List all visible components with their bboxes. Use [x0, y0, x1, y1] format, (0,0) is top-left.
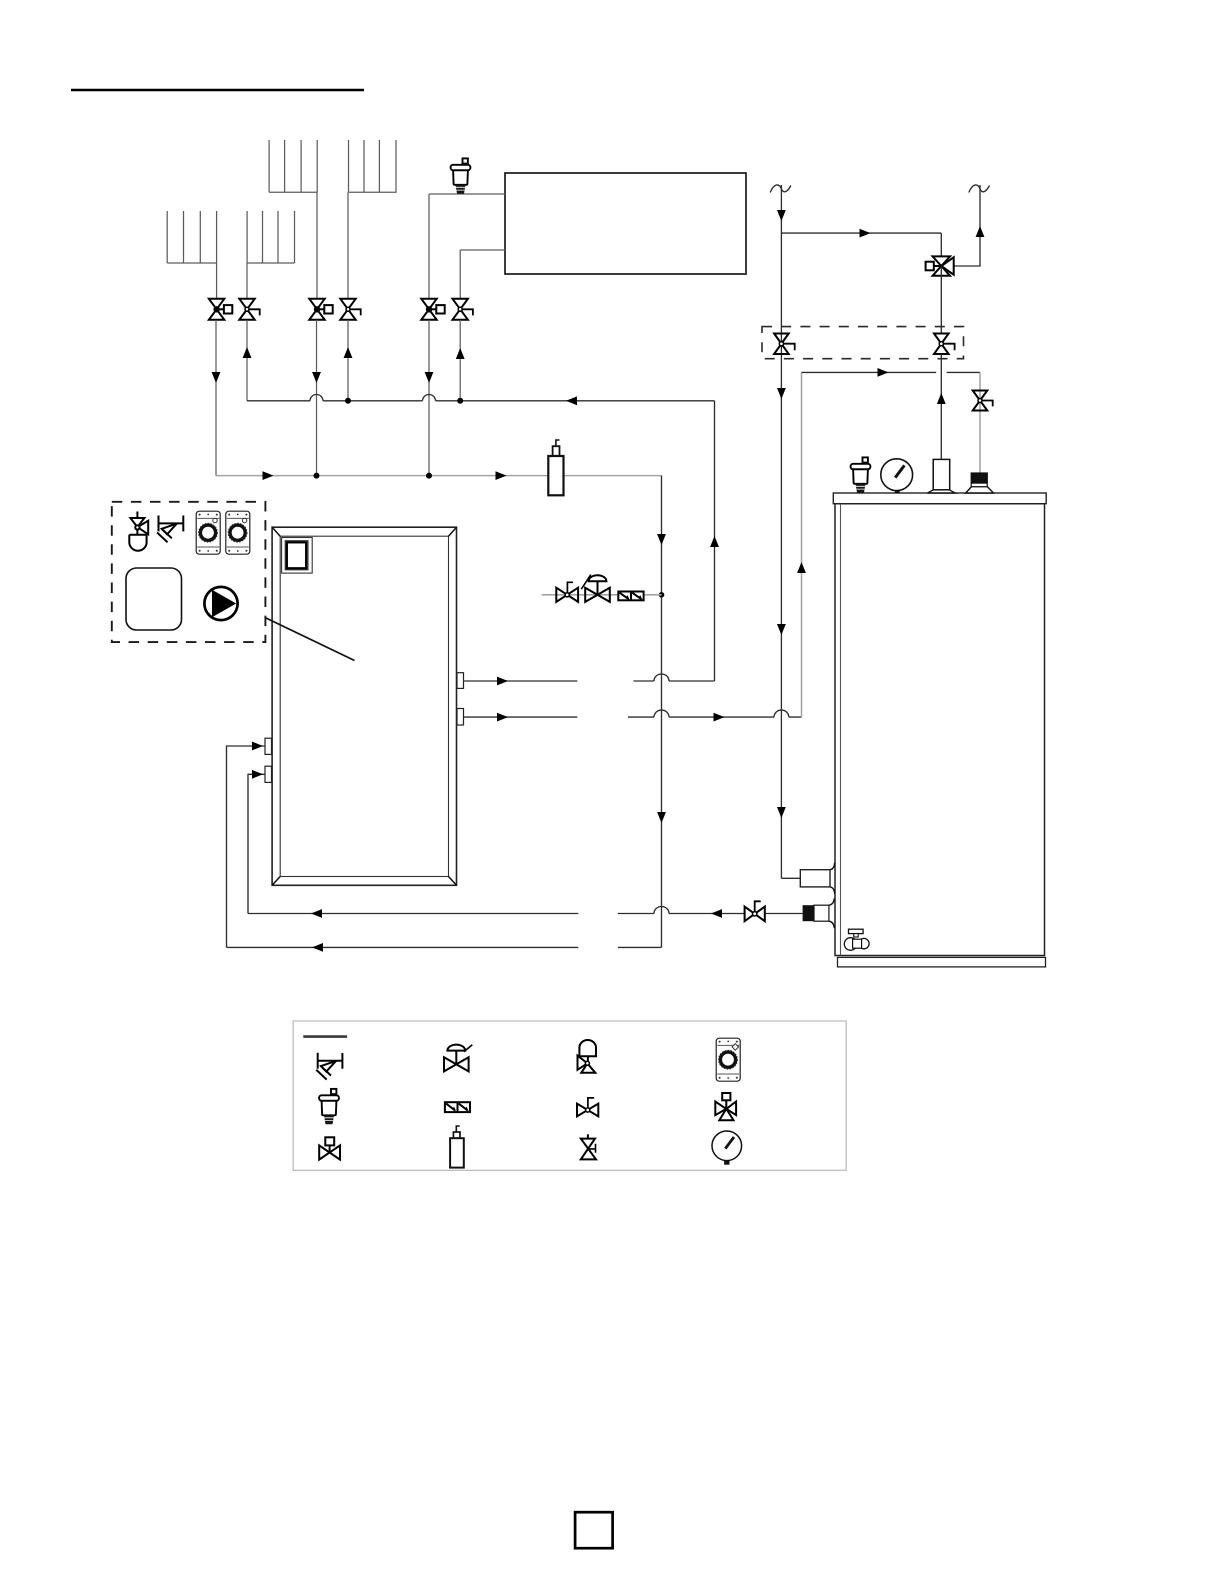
heating supply main	[247, 400, 715, 402]
tank top air vent	[851, 457, 871, 492]
radiator 1 right comb	[247, 211, 294, 263]
boiler heating supply line	[464, 674, 715, 681]
arrow left heating return	[312, 943, 323, 952]
dashed isolation-valve box	[762, 327, 964, 359]
wire radiator1 supply drop	[246, 263, 248, 299]
wire fancoil top connection	[429, 193, 505, 195]
hot water break squiggle	[969, 185, 990, 193]
legend gate valve with cap	[319, 1137, 340, 1159]
dashed internal-components box	[112, 502, 266, 642]
cold water break squiggle	[770, 185, 791, 193]
arrow up radiator1 supply	[243, 347, 252, 358]
tank lower side flange	[829, 898, 835, 928]
hand valve fan coil	[453, 299, 473, 320]
radiator hand valve radiator 1	[239, 299, 259, 320]
boiler DHW supply line	[464, 710, 802, 717]
boiler left port upper stub	[265, 738, 272, 754]
boiler left port lower stub	[265, 766, 272, 782]
legend double check valve	[445, 1102, 470, 1112]
hand valve on tank coil inlet	[973, 391, 993, 411]
arrow into boiler upper-left port	[252, 742, 263, 751]
tank pressure gauge	[881, 459, 913, 493]
heating return main	[216, 475, 662, 477]
internal circulator pump symbol	[204, 587, 237, 620]
arrow down radiator2 return	[312, 372, 321, 383]
thermostatic mixing valve	[926, 256, 954, 275]
tank upper side flange	[830, 863, 835, 894]
legend pressure gauge	[712, 1131, 742, 1165]
legend three-way valve	[715, 1093, 736, 1120]
arrow down cold water top	[777, 210, 786, 221]
wire radiator2 supply drop	[347, 192, 349, 298]
wire fancoil return drop	[428, 194, 430, 299]
arrow down cold water lower	[777, 807, 786, 818]
cold water branch to mixing valve	[781, 232, 941, 234]
tank lower side port black fitting	[803, 905, 814, 921]
boiler inner panel	[280, 536, 448, 876]
legend pressure reducing valve	[444, 1045, 472, 1072]
tank drain cock	[844, 929, 869, 950]
tank return line to boiler	[248, 907, 803, 914]
legend automatic air vent	[319, 1089, 339, 1124]
tank hot water outlet fitting (black cap)	[966, 472, 994, 493]
arrow left tank return left	[311, 909, 322, 918]
lockshield valve radiator 2	[309, 299, 332, 320]
arrow left on supply main	[566, 396, 577, 405]
arrow down cold water mid1	[777, 388, 786, 399]
internal air vent with cup	[129, 512, 148, 551]
tank coil feed pipe	[940, 354, 942, 459]
internal expansion vessel (rounded square)	[126, 568, 182, 630]
heating return bottom line	[227, 946, 662, 948]
arrow right on heating supply	[497, 677, 508, 686]
legend box	[293, 1021, 846, 1170]
leader line from dashed box to boiler	[266, 618, 355, 661]
boiler outer casing	[272, 527, 456, 885]
legend ball valve	[577, 1098, 598, 1117]
wire radiator2 return to main (hop over supply main)	[316, 320, 318, 476]
filling loop line	[542, 594, 662, 596]
wire radiator2 supply to main	[347, 320, 349, 401]
wire fancoil supply to main	[459, 320, 461, 401]
fan coil unit box	[505, 173, 746, 274]
lockshield valve fan coil	[421, 299, 444, 320]
arrow into boiler lower-left port	[252, 770, 263, 779]
arrow right on cold branch	[860, 229, 871, 238]
internal safety valve	[157, 516, 183, 543]
legend safety valve	[316, 1053, 342, 1080]
arrow up on DHW riser	[797, 562, 806, 573]
radiator return drop pipe	[661, 476, 663, 948]
boiler bevel corners	[272, 527, 456, 885]
cold water into tank lower connection	[781, 877, 800, 879]
boiler control panel	[282, 538, 313, 574]
wire radiator1 return drop	[216, 263, 218, 299]
arrow right on DHW supply at boiler	[497, 713, 508, 722]
heating return riser to boiler upper-left port	[227, 746, 266, 947]
radiator 1 left comb	[167, 211, 217, 263]
lockshield valve radiator 1	[209, 299, 232, 320]
arrow down radiator1 return	[212, 372, 221, 383]
legend pipe line sample	[303, 1035, 347, 1038]
tank base band	[838, 957, 1046, 967]
radiator hand valve radiator 2	[340, 299, 360, 320]
boiler right port upper stub	[457, 673, 464, 689]
arrow up on riser	[710, 536, 719, 547]
arrow right on return main mid	[496, 471, 507, 480]
cold water isolating valve	[774, 334, 795, 355]
page number box	[575, 1512, 613, 1548]
tank upper side port stub	[800, 870, 830, 887]
arrow right on DHW supply mid	[714, 713, 725, 722]
tank return ball valve	[745, 901, 765, 921]
mixing valve to isolating valve pipe	[940, 266, 942, 334]
wire fancoil supply drop	[459, 250, 461, 299]
arrow up tank coil feed	[937, 393, 946, 404]
wire fancoil return to return main (hop over supply main)	[428, 320, 430, 476]
node fancoil supply junction	[457, 398, 463, 404]
tank inner left line	[840, 504, 842, 956]
air vent on fancoil line	[451, 158, 471, 193]
drop to tank coil inlet	[979, 372, 981, 472]
DHW riser to tank coil	[801, 372, 803, 717]
tank coil inlet stub	[928, 459, 956, 493]
DHW top horizontal to tank	[802, 371, 981, 373]
radiator 2 right comb	[349, 140, 397, 192]
node fancoil return junction	[426, 473, 432, 479]
internal pump unit 1	[196, 511, 220, 554]
cold water supply pipe	[780, 185, 782, 878]
boiler right port lower stub	[457, 709, 464, 726]
arrow up radiator2 supply	[344, 347, 353, 358]
title underline	[71, 89, 364, 92]
fill double check valve	[618, 592, 643, 601]
node radiator2 supply junction	[345, 398, 351, 404]
legend motorized zone valve	[578, 1040, 597, 1073]
arrow right on DHW top horizontal	[878, 368, 889, 377]
arrow down on return drop upper	[657, 534, 666, 545]
legend immersion probe	[450, 1126, 464, 1168]
arrow down fancoil return	[425, 372, 434, 383]
hot side isolating valve	[934, 334, 955, 355]
hot water out pipe	[954, 185, 980, 266]
node fill line junction	[659, 592, 665, 598]
internal pump unit 2	[226, 511, 250, 554]
arrow right on return main left	[263, 471, 274, 480]
arrow left tank return right	[711, 909, 722, 918]
arrow up hot water out	[976, 226, 985, 237]
legend drain valve	[581, 1134, 596, 1159]
sensor probe on return main	[548, 440, 563, 495]
drop to mixing valve	[940, 233, 942, 256]
wire radiator1 return to main	[215, 320, 217, 476]
storage tank body	[835, 504, 1045, 956]
legend pump unit	[716, 1038, 740, 1081]
wire radiator1 supply to main	[246, 320, 248, 401]
fill ball valve	[556, 582, 578, 602]
arrow down cold water mid2	[777, 624, 786, 635]
riser to supply main	[714, 401, 716, 681]
radiator 2 left comb	[269, 140, 318, 192]
tank top band	[833, 493, 1046, 504]
fill pressure reducing valve	[581, 575, 610, 602]
wire fancoil bottom connection	[460, 249, 505, 251]
tank return riser to boiler lower-left port	[248, 774, 265, 913]
arrow up fancoil supply	[456, 348, 465, 359]
tank lower side port neck	[814, 905, 829, 921]
node radiator2 return junction	[314, 473, 320, 479]
wire radiator2 return drop	[316, 192, 318, 298]
arrow down on return drop lower	[657, 812, 666, 823]
